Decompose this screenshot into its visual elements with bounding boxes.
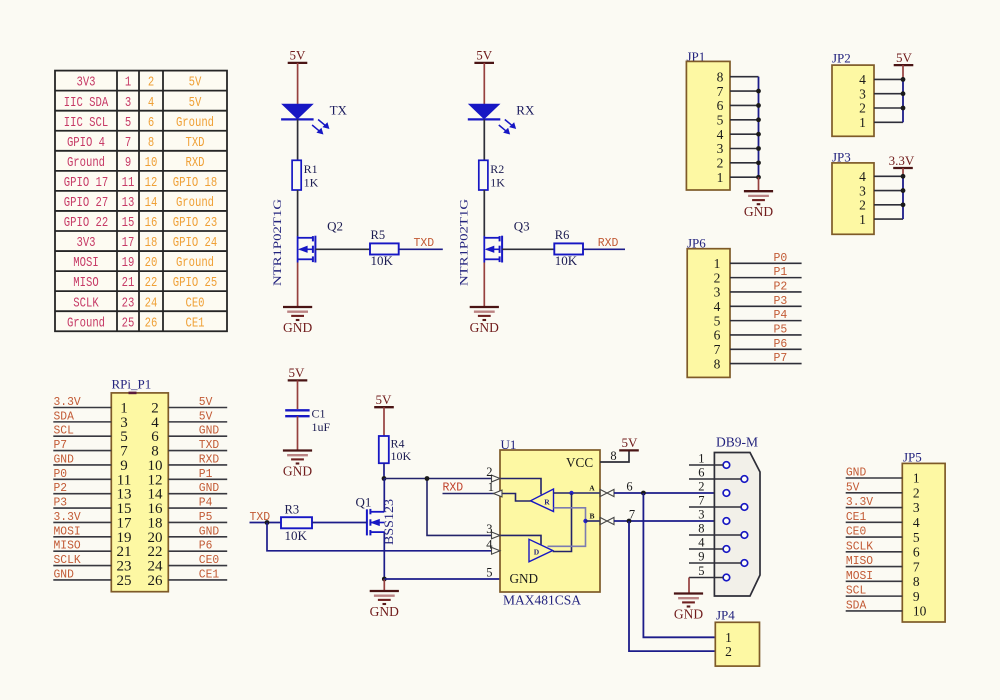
power 5V (R4) bbox=[374, 392, 394, 436]
svg-text:P7: P7 bbox=[774, 352, 788, 365]
power 3.3V (JP3) bbox=[889, 153, 915, 177]
power 5V (R1 branch) bbox=[288, 48, 308, 105]
JP5 pin wires and net labels bbox=[846, 467, 903, 613]
svg-text:10: 10 bbox=[145, 155, 158, 171]
ground (JP1) bbox=[744, 177, 773, 219]
svg-text:2: 2 bbox=[698, 479, 704, 493]
svg-text:R6: R6 bbox=[555, 228, 570, 242]
svg-text:IIC SDA: IIC SDA bbox=[64, 95, 109, 111]
svg-text:GND: GND bbox=[283, 464, 312, 479]
svg-text:5V: 5V bbox=[896, 50, 913, 65]
wire Q3 gate to R6 bbox=[502, 248, 554, 250]
ground (Q3 branch) bbox=[470, 307, 499, 335]
RPi_P1 left pin wires and net labels bbox=[53, 396, 111, 581]
svg-text:3: 3 bbox=[717, 141, 724, 156]
wire U1 pin3 (DE) path bbox=[427, 479, 541, 545]
wire B net inside U1 bbox=[586, 520, 601, 522]
svg-text:5: 5 bbox=[698, 564, 704, 578]
LED RX bbox=[468, 103, 535, 134]
svg-text:MISO: MISO bbox=[54, 540, 81, 553]
wire U1 pin8 to 5V bbox=[600, 450, 629, 462]
svg-text:GND: GND bbox=[199, 482, 219, 495]
svg-text:GND: GND bbox=[370, 604, 399, 619]
svg-text:P7: P7 bbox=[54, 439, 68, 452]
svg-text:8: 8 bbox=[610, 449, 616, 463]
svg-text:GPIO 17: GPIO 17 bbox=[64, 175, 108, 191]
svg-text:Q1: Q1 bbox=[356, 495, 372, 510]
svg-text:2: 2 bbox=[148, 75, 154, 91]
svg-text:14: 14 bbox=[145, 195, 158, 211]
ground (Q1) bbox=[370, 579, 399, 619]
wire JP2 5V bus bbox=[902, 79, 904, 122]
JP3 bus junctions bbox=[901, 174, 906, 207]
svg-text:Ground: Ground bbox=[176, 195, 214, 211]
svg-text:JP4: JP4 bbox=[716, 608, 735, 623]
svg-text:5: 5 bbox=[486, 566, 492, 580]
transistor Q1 BSS123 (N-MOSFET) bbox=[356, 495, 396, 546]
svg-text:18: 18 bbox=[145, 235, 158, 251]
wire LED cathode to R1 bbox=[297, 119, 299, 160]
ground (Q2 branch) bbox=[283, 307, 312, 335]
resistor R1 1K bbox=[292, 160, 319, 190]
svg-text:P6: P6 bbox=[199, 540, 213, 553]
svg-text:SCLK: SCLK bbox=[73, 295, 99, 311]
svg-text:CE0: CE0 bbox=[185, 295, 204, 311]
svg-text:B: B bbox=[589, 512, 594, 521]
node U1 pin3 branch junction bbox=[425, 476, 430, 481]
svg-text:SCL: SCL bbox=[846, 585, 866, 598]
svg-text:10K: 10K bbox=[391, 449, 412, 463]
svg-text:CE1: CE1 bbox=[199, 568, 219, 581]
node enable junction (R4/Q1 drain/U1 pin2) bbox=[382, 476, 387, 481]
svg-text:RXD: RXD bbox=[598, 237, 619, 250]
svg-text:1: 1 bbox=[913, 471, 920, 486]
svg-text:C1: C1 bbox=[312, 407, 326, 421]
svg-text:GND: GND bbox=[674, 607, 703, 622]
svg-text:5V: 5V bbox=[199, 410, 213, 423]
svg-text:GPIO 24: GPIO 24 bbox=[173, 235, 217, 251]
svg-text:17: 17 bbox=[122, 235, 135, 251]
svg-text:26: 26 bbox=[145, 315, 158, 331]
svg-text:1: 1 bbox=[488, 480, 494, 494]
svg-text:MOSI: MOSI bbox=[73, 255, 98, 271]
wire TXD to U1 pin4 (DI) bbox=[267, 523, 529, 551]
U1 driver amp D bbox=[529, 539, 553, 562]
svg-text:GPIO 23: GPIO 23 bbox=[173, 215, 217, 231]
svg-text:R1: R1 bbox=[304, 162, 318, 176]
wire Q1 source to GND node bbox=[383, 532, 385, 579]
svg-text:GND: GND bbox=[470, 320, 499, 335]
svg-text:SDA: SDA bbox=[54, 410, 74, 423]
svg-text:23: 23 bbox=[122, 295, 135, 311]
wire R1 to Q2 drain bbox=[297, 190, 299, 236]
svg-text:8: 8 bbox=[698, 521, 704, 535]
svg-text:6: 6 bbox=[913, 545, 920, 560]
op-amp U1 MAX481CSA body bbox=[500, 437, 600, 608]
LED TX bbox=[281, 103, 347, 134]
DB9 pin circles bbox=[723, 462, 748, 581]
svg-text:7: 7 bbox=[717, 84, 724, 99]
DB9 pin stub wires bbox=[689, 465, 741, 578]
wire R2 to Q3 drain bbox=[483, 190, 485, 236]
svg-text:D: D bbox=[534, 548, 540, 557]
transistor Q2 NTR1P02T1G (P-MOSFET) bbox=[270, 199, 343, 286]
svg-text:1: 1 bbox=[725, 630, 732, 645]
svg-text:21: 21 bbox=[122, 275, 135, 291]
svg-text:RXD: RXD bbox=[443, 482, 464, 495]
wire R3 to Q1 gate bbox=[312, 522, 367, 524]
svg-text:5: 5 bbox=[913, 530, 920, 545]
svg-text:5V: 5V bbox=[290, 48, 307, 63]
svg-text:5: 5 bbox=[717, 112, 724, 127]
JP3 pin stub wires bbox=[874, 176, 903, 219]
svg-text:1: 1 bbox=[717, 170, 724, 185]
svg-text:JP2: JP2 bbox=[832, 51, 851, 66]
svg-text:10: 10 bbox=[913, 604, 927, 619]
power 5V (R2 branch) bbox=[474, 48, 494, 105]
svg-text:GPIO 18: GPIO 18 bbox=[173, 175, 217, 191]
svg-text:VCC: VCC bbox=[566, 455, 593, 470]
svg-text:RPi_P1: RPi_P1 bbox=[112, 377, 152, 392]
svg-text:GND: GND bbox=[54, 568, 74, 581]
svg-text:19: 19 bbox=[122, 255, 135, 271]
svg-text:P2: P2 bbox=[774, 280, 788, 293]
power 5V (C1) bbox=[288, 365, 308, 409]
svg-text:SDA: SDA bbox=[846, 599, 866, 612]
svg-text:6: 6 bbox=[148, 115, 154, 131]
svg-text:GND: GND bbox=[510, 571, 539, 586]
svg-text:5V: 5V bbox=[476, 48, 493, 63]
svg-text:CE0: CE0 bbox=[199, 554, 219, 567]
svg-text:6: 6 bbox=[717, 98, 724, 113]
svg-text:Ground: Ground bbox=[176, 115, 214, 131]
svg-text:3: 3 bbox=[913, 500, 920, 515]
svg-text:MOSI: MOSI bbox=[846, 570, 873, 583]
connector JP5 bbox=[902, 450, 945, 623]
connector RPi_P1 bbox=[111, 377, 168, 592]
svg-text:GND: GND bbox=[54, 453, 74, 466]
svg-text:MAX481CSA: MAX481CSA bbox=[503, 593, 581, 608]
svg-text:P5: P5 bbox=[199, 511, 213, 524]
svg-text:3V3: 3V3 bbox=[76, 235, 95, 251]
resistor R6 10K bbox=[554, 228, 583, 268]
svg-text:10K: 10K bbox=[555, 253, 578, 268]
svg-text:4: 4 bbox=[913, 515, 920, 530]
svg-text:MOSI: MOSI bbox=[54, 525, 81, 538]
svg-text:5: 5 bbox=[714, 313, 721, 328]
wire GND node to U1 pin5 bbox=[384, 578, 500, 580]
wire net A branch to JP4 pin1 bbox=[643, 493, 715, 637]
svg-text:5V: 5V bbox=[289, 365, 306, 380]
connector JP4 bbox=[715, 608, 759, 667]
svg-text:11: 11 bbox=[122, 175, 135, 191]
svg-text:CE1: CE1 bbox=[846, 511, 866, 524]
node A junction bbox=[641, 491, 646, 496]
svg-text:3.3V: 3.3V bbox=[846, 496, 873, 509]
svg-text:5V: 5V bbox=[846, 481, 860, 494]
svg-text:CE1: CE1 bbox=[185, 315, 204, 331]
node B inner junction bbox=[583, 519, 587, 523]
svg-text:1: 1 bbox=[859, 212, 866, 227]
svg-text:26: 26 bbox=[148, 573, 164, 589]
svg-text:Ground: Ground bbox=[176, 255, 214, 271]
svg-text:13: 13 bbox=[122, 195, 135, 211]
svg-text:GPIO 25: GPIO 25 bbox=[173, 275, 217, 291]
svg-text:TXD: TXD bbox=[185, 135, 204, 151]
svg-text:3.3V: 3.3V bbox=[54, 396, 81, 409]
svg-text:8: 8 bbox=[913, 574, 920, 589]
resistor R2 1K bbox=[479, 160, 506, 190]
power 5V (JP2) bbox=[894, 50, 914, 80]
connector JP6 bbox=[687, 236, 730, 378]
node TXD junction bbox=[265, 520, 270, 525]
svg-text:P5: P5 bbox=[774, 323, 788, 336]
wire R5 to TXD net bbox=[399, 248, 443, 250]
svg-text:MISO: MISO bbox=[73, 275, 98, 291]
DB9 pin numbers bbox=[698, 451, 705, 578]
svg-text:P4: P4 bbox=[199, 497, 213, 510]
svg-text:NTR1P02T1G: NTR1P02T1G bbox=[457, 199, 471, 286]
svg-text:JP5: JP5 bbox=[903, 450, 922, 465]
svg-text:5V: 5V bbox=[199, 396, 213, 409]
svg-text:P3: P3 bbox=[774, 295, 788, 308]
svg-text:P3: P3 bbox=[54, 497, 68, 510]
svg-text:7: 7 bbox=[714, 342, 721, 357]
wire receiver input B (slate) bbox=[548, 508, 586, 547]
svg-text:Ground: Ground bbox=[67, 155, 105, 171]
svg-text:RX: RX bbox=[516, 103, 535, 118]
power 5V (U1 pin8) bbox=[619, 435, 639, 450]
JP2 bus junctions bbox=[901, 77, 906, 110]
svg-text:TXD: TXD bbox=[199, 439, 219, 452]
node A inner junction bbox=[569, 491, 573, 495]
wire R4 to enable node bbox=[383, 463, 385, 478]
svg-text:IIC SCL: IIC SCL bbox=[64, 115, 108, 131]
transistor Q3 NTR1P02T1G (P-MOSFET) bbox=[457, 199, 530, 286]
wire U1 pin1 (RO) path bbox=[443, 494, 531, 502]
svg-text:GPIO 22: GPIO 22 bbox=[64, 215, 108, 231]
svg-text:RXD: RXD bbox=[185, 155, 204, 171]
wire net A (U1 pin6 to DB9 pin2) bbox=[614, 492, 723, 494]
svg-text:MISO: MISO bbox=[846, 555, 873, 568]
svg-text:3: 3 bbox=[125, 95, 131, 111]
wire C1 to GND bbox=[297, 416, 299, 450]
wire R6 to RXD net bbox=[583, 248, 625, 250]
svg-text:4: 4 bbox=[714, 299, 721, 314]
svg-text:GPIO 27: GPIO 27 bbox=[64, 195, 108, 211]
svg-text:GND: GND bbox=[199, 425, 219, 438]
svg-text:RXD: RXD bbox=[199, 453, 219, 466]
svg-text:3: 3 bbox=[859, 183, 866, 198]
svg-text:P6: P6 bbox=[774, 338, 788, 351]
svg-text:SCLK: SCLK bbox=[846, 540, 873, 553]
svg-text:7: 7 bbox=[125, 135, 131, 151]
svg-text:GND: GND bbox=[744, 204, 773, 219]
svg-text:12: 12 bbox=[145, 175, 158, 191]
svg-text:GND: GND bbox=[846, 467, 866, 480]
resistor R3 10K bbox=[281, 503, 312, 544]
svg-text:4: 4 bbox=[859, 72, 866, 87]
svg-text:P1: P1 bbox=[774, 266, 788, 279]
JP6 pin wires and net labels P0-P7 bbox=[730, 252, 802, 365]
svg-text:Ground: Ground bbox=[67, 315, 105, 331]
capacitor C1 1uF bbox=[285, 407, 330, 435]
svg-text:9: 9 bbox=[125, 155, 131, 171]
svg-text:1uF: 1uF bbox=[312, 420, 331, 434]
svg-text:25: 25 bbox=[122, 315, 135, 331]
svg-text:2: 2 bbox=[714, 270, 721, 285]
U1 receiver amp R bbox=[531, 489, 554, 512]
svg-text:3: 3 bbox=[698, 507, 704, 521]
svg-text:5V: 5V bbox=[189, 95, 202, 111]
svg-text:5V: 5V bbox=[189, 75, 202, 91]
svg-text:A: A bbox=[589, 484, 595, 493]
RPi_P1 right pin wires and net labels bbox=[168, 396, 227, 581]
svg-text:3: 3 bbox=[714, 285, 721, 300]
connector DB9-M body bbox=[714, 435, 760, 597]
wire LED cathode to R2 bbox=[483, 119, 485, 160]
JP1 bus junctions bbox=[756, 89, 761, 180]
svg-text:4: 4 bbox=[486, 537, 493, 551]
svg-text:7: 7 bbox=[913, 559, 920, 574]
svg-text:10K: 10K bbox=[371, 253, 394, 268]
svg-text:1K: 1K bbox=[490, 176, 505, 190]
svg-text:2: 2 bbox=[859, 101, 866, 116]
wire A to driver output bbox=[553, 493, 572, 552]
wire TXD net to R3 bbox=[250, 522, 282, 524]
connector JP2 bbox=[832, 51, 874, 137]
svg-text:GND: GND bbox=[283, 320, 312, 335]
wire JP3 3.3V bus bbox=[902, 176, 904, 219]
svg-text:2: 2 bbox=[486, 465, 492, 479]
svg-text:3: 3 bbox=[486, 522, 492, 536]
svg-text:P4: P4 bbox=[774, 309, 788, 322]
svg-text:4: 4 bbox=[698, 535, 705, 549]
svg-text:8: 8 bbox=[148, 135, 154, 151]
svg-text:1K: 1K bbox=[304, 176, 319, 190]
svg-text:9: 9 bbox=[913, 589, 920, 604]
svg-text:16: 16 bbox=[145, 215, 158, 231]
JP2 pin stub wires bbox=[874, 79, 903, 122]
svg-text:DB9-M: DB9-M bbox=[716, 435, 758, 450]
svg-text:25: 25 bbox=[117, 573, 132, 589]
svg-text:R3: R3 bbox=[285, 503, 300, 517]
resistor R4 10K bbox=[379, 436, 412, 463]
svg-text:1: 1 bbox=[125, 75, 131, 91]
svg-text:Q2: Q2 bbox=[327, 219, 343, 234]
svg-text:22: 22 bbox=[145, 275, 158, 291]
svg-text:CE0: CE0 bbox=[846, 526, 866, 539]
svg-text:8: 8 bbox=[717, 69, 724, 84]
svg-text:4: 4 bbox=[717, 127, 724, 142]
svg-text:3: 3 bbox=[859, 86, 866, 101]
U1 pin markers and numbers bbox=[486, 449, 635, 580]
wire net B branch to JP4 pin2 bbox=[629, 521, 715, 651]
svg-text:4: 4 bbox=[148, 95, 154, 111]
svg-text:TX: TX bbox=[330, 103, 348, 118]
svg-text:3.3V: 3.3V bbox=[889, 153, 915, 168]
wire A net inside U1 bbox=[554, 492, 601, 494]
svg-text:2: 2 bbox=[859, 198, 866, 213]
node B junction bbox=[627, 519, 632, 524]
connector JP1 bbox=[686, 49, 730, 190]
svg-text:P0: P0 bbox=[54, 468, 68, 481]
wire Q3 source to GND bbox=[483, 263, 485, 308]
svg-text:6: 6 bbox=[714, 328, 721, 343]
wire U1 pin2 (RE) path bbox=[384, 479, 541, 495]
svg-text:P2: P2 bbox=[54, 482, 68, 495]
node Q1 source / U1 pin5 junction bbox=[382, 577, 387, 582]
wire net B (U1 pin7 to DB9 pin3) bbox=[614, 520, 723, 522]
pin-map table bbox=[55, 71, 227, 332]
svg-text:5V: 5V bbox=[376, 392, 393, 407]
svg-text:GPIO 4: GPIO 4 bbox=[67, 135, 105, 151]
svg-text:8: 8 bbox=[714, 356, 721, 371]
svg-text:P1: P1 bbox=[199, 468, 213, 481]
svg-text:2: 2 bbox=[725, 644, 732, 659]
svg-text:1: 1 bbox=[714, 256, 721, 271]
svg-text:4: 4 bbox=[859, 169, 866, 184]
svg-text:5: 5 bbox=[125, 115, 131, 131]
svg-text:Q3: Q3 bbox=[514, 219, 530, 234]
svg-text:1: 1 bbox=[859, 115, 866, 130]
svg-text:R: R bbox=[544, 498, 550, 507]
wire JP1 ground bus bbox=[758, 77, 760, 178]
svg-text:R5: R5 bbox=[371, 228, 386, 242]
wire Q2 gate to R5 bbox=[315, 248, 370, 250]
svg-text:6: 6 bbox=[698, 465, 704, 479]
svg-text:TXD: TXD bbox=[414, 237, 435, 250]
svg-text:SCLK: SCLK bbox=[54, 554, 81, 567]
svg-text:10K: 10K bbox=[285, 528, 308, 543]
JP1 pin stub wires bbox=[730, 77, 759, 178]
svg-text:6: 6 bbox=[626, 480, 632, 494]
ground (DB9 pin5) bbox=[674, 578, 703, 622]
svg-text:NTR1P02T1G: NTR1P02T1G bbox=[270, 199, 284, 286]
svg-text:R2: R2 bbox=[490, 162, 504, 176]
svg-text:GND: GND bbox=[199, 525, 219, 538]
svg-text:15: 15 bbox=[122, 215, 135, 231]
svg-text:3V3: 3V3 bbox=[76, 75, 95, 91]
wire Q1 drain to enable node bbox=[383, 479, 385, 512]
wire Q2 source to GND bbox=[297, 263, 299, 308]
connector JP3 bbox=[832, 150, 874, 235]
svg-text:SCL: SCL bbox=[54, 425, 74, 438]
svg-text:3.3V: 3.3V bbox=[54, 511, 81, 524]
svg-text:P0: P0 bbox=[774, 252, 788, 265]
ground (C1) bbox=[283, 451, 312, 479]
svg-text:20: 20 bbox=[145, 255, 158, 271]
svg-text:9: 9 bbox=[698, 549, 704, 563]
svg-text:24: 24 bbox=[145, 295, 158, 311]
svg-text:7: 7 bbox=[698, 493, 704, 507]
svg-text:2: 2 bbox=[717, 156, 724, 171]
svg-text:1: 1 bbox=[698, 451, 704, 465]
svg-text:2: 2 bbox=[913, 485, 920, 500]
svg-text:5V: 5V bbox=[622, 435, 639, 450]
svg-text:U1: U1 bbox=[501, 437, 517, 452]
resistor R5 10K bbox=[370, 228, 399, 268]
